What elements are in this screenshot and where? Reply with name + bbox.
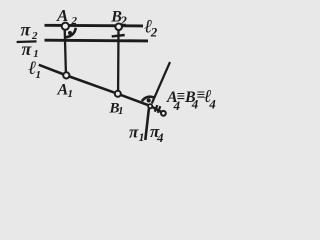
new axis Pi1/Pi4 upper segment: [152, 62, 170, 104]
svg-text:2: 2: [150, 25, 158, 40]
svg-text:π: π: [21, 20, 32, 40]
svg-text:2: 2: [71, 15, 78, 27]
svg-text:4: 4: [156, 130, 164, 145]
svg-text:1: 1: [68, 88, 74, 100]
point at junction of l1 and new axis (open circle): [148, 104, 152, 108]
point A2 (open circle): [62, 23, 69, 30]
line l2 (horizontal projection line through A2 B2): [45, 24, 144, 28]
svg-text:A: A: [56, 6, 68, 25]
svg-text:4: 4: [208, 97, 216, 112]
axis Pi2/Pi1 (horizontal): [45, 39, 149, 43]
svg-text:2: 2: [119, 13, 127, 28]
angle arc at A2 with dot (right angle mark): [65, 28, 76, 37]
wire: projection line A2-A1: [65, 30, 66, 73]
tick mark on B projection line: [112, 35, 125, 36]
svg-text:π: π: [129, 123, 139, 142]
svg-text:1: 1: [139, 130, 145, 144]
line l1 through A1 B1 extended to l4 point: [39, 65, 163, 113]
point B1 (open circle): [115, 91, 121, 97]
angle arc at junction with dot (right angle mark): [142, 97, 154, 102]
svg-text:1: 1: [36, 69, 42, 81]
new axis Pi1/Pi4 lower bar between labels: [145, 109, 149, 141]
svg-text:1: 1: [118, 105, 124, 117]
point B2 (open circle): [115, 24, 122, 31]
point A4=B4=l4 (open circle): [161, 111, 166, 116]
double tick marks on transferred segment: [155, 105, 161, 113]
svg-text:2: 2: [31, 30, 38, 42]
svg-text:π: π: [22, 39, 33, 59]
wire: projection line B2-B1: [117, 30, 120, 91]
point A1 (open circle): [63, 72, 69, 78]
fraction bar of Pi2/Pi1 label: [17, 40, 37, 43]
